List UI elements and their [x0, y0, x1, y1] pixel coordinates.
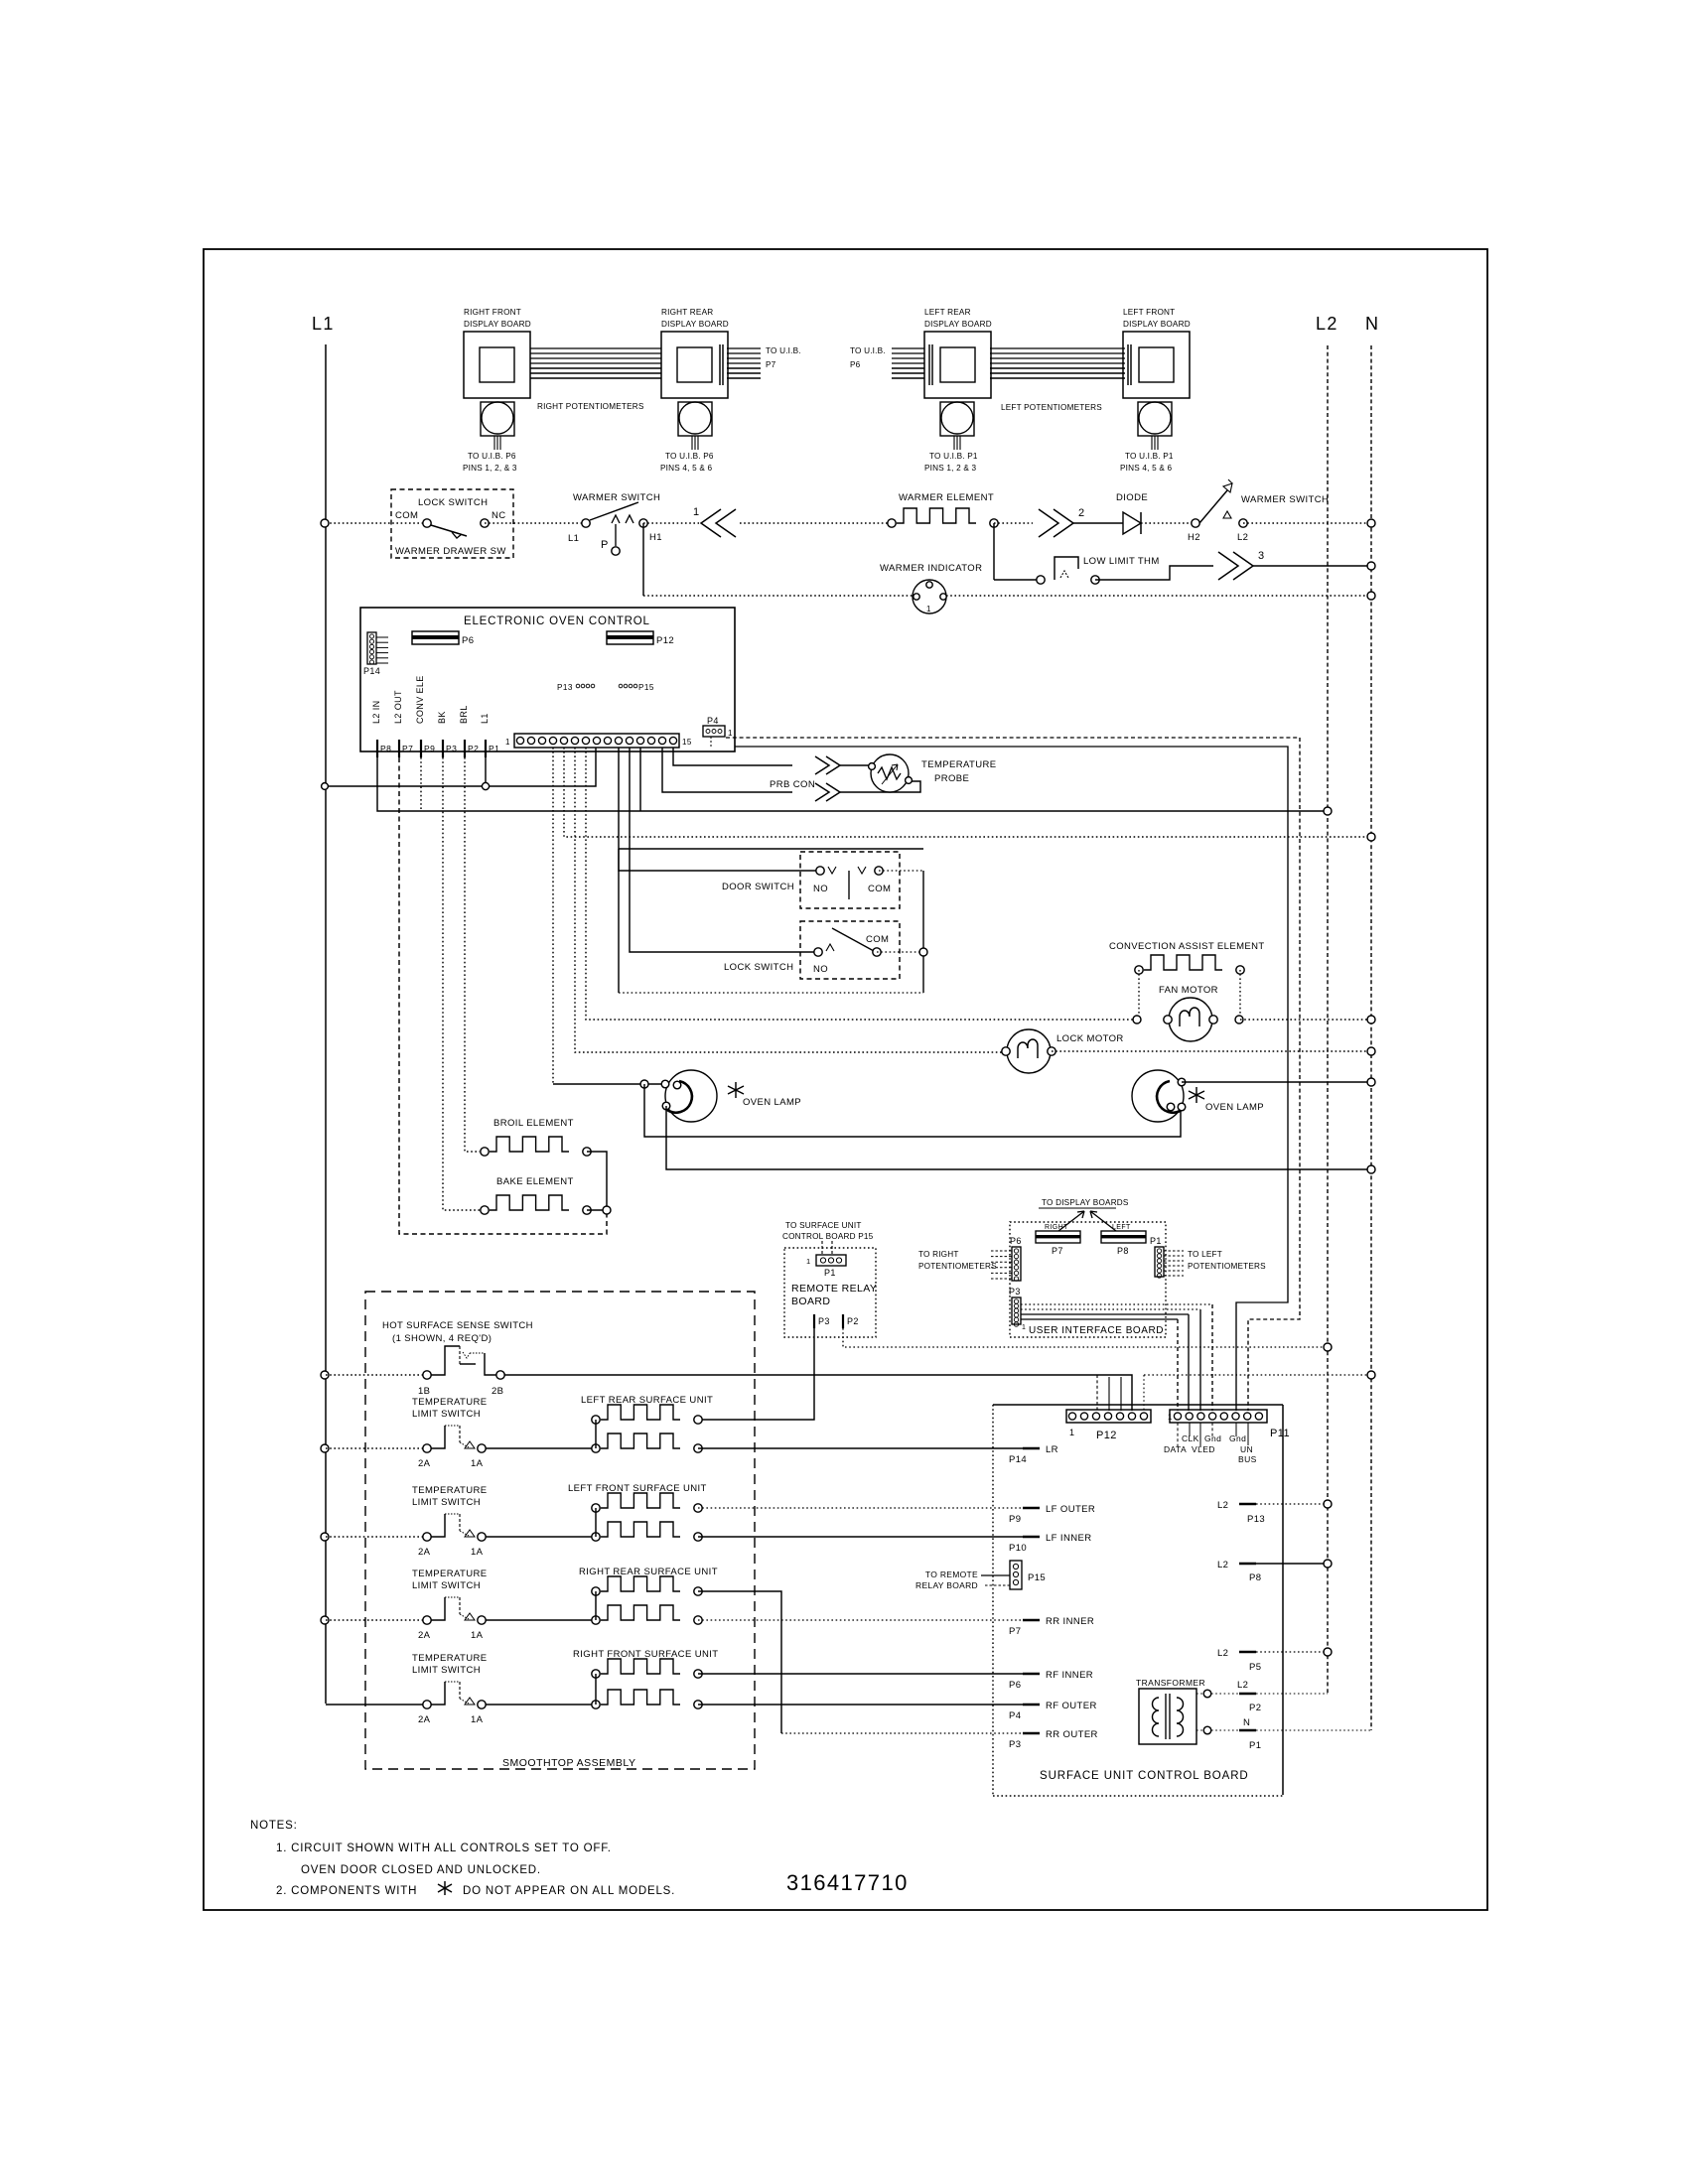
wire RF upper to SUCB P6	[698, 1673, 1023, 1675]
connector 1 chevrons	[643, 522, 699, 524]
svg-text:RIGHT: RIGHT	[1045, 1224, 1068, 1231]
node H1	[639, 519, 647, 527]
wire left lamp junction to right lamp	[644, 1084, 1181, 1137]
svg-text:LIMIT SWITCH: LIMIT SWITCH	[412, 1409, 481, 1420]
wire sense switch to SUCB P12 pin6	[504, 1375, 1132, 1411]
transformer terminals	[1196, 1693, 1207, 1695]
P11 pin function labels	[1177, 1423, 1179, 1447]
wire LF upper to SUCB P9	[698, 1507, 1023, 1509]
svg-text:OVEN DOOR CLOSED AND UNLOCKED.: OVEN DOOR CLOSED AND UNLOCKED.	[301, 1864, 541, 1876]
wire warmer switch to N bus	[1243, 522, 1371, 524]
svg-text:3: 3	[1258, 550, 1265, 562]
svg-text:LOW LIMIT THM: LOW LIMIT THM	[1083, 556, 1160, 567]
pin P9 (CONV ELE) of oven control	[420, 740, 422, 757]
svg-text:TO U.I.B.: TO U.I.B.	[850, 346, 886, 355]
wire pin15 PRB CON upper	[673, 748, 792, 765]
wire pin5 to N bus	[564, 748, 1371, 837]
svg-text:RR INNER: RR INNER	[1046, 1616, 1094, 1627]
svg-text:BAKE ELEMENT: BAKE ELEMENT	[496, 1176, 574, 1187]
svg-text:P4: P4	[1009, 1710, 1021, 1721]
svg-text:P2: P2	[1249, 1703, 1261, 1713]
svg-text:L1: L1	[568, 533, 579, 544]
connector P1 of remote relay board	[816, 1255, 846, 1266]
pin P6 (RF INNER) of SUCB	[1023, 1673, 1040, 1675]
svg-text:WARMER INDICATOR: WARMER INDICATOR	[880, 563, 982, 574]
svg-text:TEMPERATURE: TEMPERATURE	[412, 1653, 487, 1664]
svg-text:P6: P6	[1010, 1236, 1022, 1246]
connector 3 chevrons	[1218, 552, 1253, 580]
door-lock switch outer box	[619, 848, 923, 850]
svg-text:P13: P13	[1247, 1514, 1265, 1525]
svg-text:1A: 1A	[471, 1714, 484, 1725]
svg-text:P14: P14	[1009, 1454, 1027, 1465]
svg-text:ELECTRONIC OVEN CONTROL: ELECTRONIC OVEN CONTROL	[464, 615, 650, 627]
svg-text:DISPLAY BOARD: DISPLAY BOARD	[924, 320, 992, 329]
svg-text:RIGHT REAR SURFACE UNIT: RIGHT REAR SURFACE UNIT	[579, 1567, 718, 1577]
wire RR upper to SUCB P3	[698, 1591, 781, 1733]
wire pin11 to lock switch NO	[630, 748, 818, 952]
wire pin14 PRB CON lower	[662, 748, 792, 792]
svg-text:LEFT: LEFT	[1112, 1224, 1131, 1231]
svg-text:1: 1	[505, 738, 510, 747]
svg-text:TO RIGHT: TO RIGHT	[918, 1250, 959, 1259]
pin P2 of remote relay board	[842, 1314, 844, 1328]
svg-text:L2 OUT: L2 OUT	[393, 690, 403, 724]
svg-text:P7: P7	[766, 360, 776, 369]
svg-text:H2: H2	[1188, 532, 1200, 543]
svg-text:WARMER SWITCH: WARMER SWITCH	[1241, 494, 1329, 505]
svg-text:WARMER ELEMENT: WARMER ELEMENT	[899, 492, 994, 503]
svg-text:1: 1	[1069, 1428, 1074, 1437]
wire NC to warmer switch	[485, 522, 586, 524]
wire pin7 to fan motor	[586, 748, 1137, 1020]
svg-text:RF INNER: RF INNER	[1046, 1670, 1093, 1681]
asterisk right lamp	[1189, 1087, 1204, 1103]
oven lamp (right)	[1132, 1070, 1184, 1122]
pin P8 (L2 IN) of oven control	[376, 740, 378, 757]
svg-text:1B: 1B	[418, 1386, 430, 1397]
wire P9 CONV ELE drop	[420, 757, 422, 811]
svg-text:SMOOTHTOP ASSEMBLY: SMOOTHTOP ASSEMBLY	[502, 1757, 635, 1769]
wire UIB P3 to SUCB P11 pin2	[1021, 1313, 1189, 1315]
wire L1 row to EOC pin P1/pin8	[326, 748, 596, 786]
wire door COM to common rail	[879, 870, 923, 872]
svg-text:TO LEFT: TO LEFT	[1188, 1250, 1222, 1259]
svg-text:P2: P2	[847, 1316, 859, 1326]
svg-text:LEFT POTENTIOMETERS: LEFT POTENTIOMETERS	[1001, 403, 1102, 412]
svg-text:H1: H1	[649, 532, 662, 543]
svg-text:P3: P3	[446, 744, 457, 753]
svg-text:L2: L2	[1217, 1560, 1228, 1570]
svg-text:TO U.I.B. P6: TO U.I.B. P6	[665, 452, 714, 461]
svg-text:TRANSFORMER: TRANSFORMER	[1136, 1678, 1205, 1688]
wire bake to return junction	[587, 1209, 607, 1211]
svg-text:SURFACE UNIT CONTROL BOARD: SURFACE UNIT CONTROL BOARD	[1040, 1770, 1249, 1782]
svg-text:POTENTIOMETERS: POTENTIOMETERS	[1188, 1262, 1266, 1271]
oven lamp (left)	[665, 1070, 717, 1122]
svg-text:P8: P8	[1117, 1246, 1129, 1256]
svg-text:P3: P3	[1009, 1287, 1021, 1297]
svg-text:P4: P4	[707, 716, 719, 726]
node L2 terminal of warmer switch	[1239, 519, 1247, 527]
wire UIB P3 to SUCB P11 pin3	[1021, 1308, 1200, 1310]
svg-text:TO U.I.B.: TO U.I.B.	[766, 346, 801, 355]
svg-text:BUS: BUS	[1238, 1454, 1257, 1464]
connector 2 chevrons	[1039, 509, 1073, 537]
svg-text:BOARD: BOARD	[791, 1296, 830, 1307]
wire P2 BRL to broil element	[465, 757, 480, 1152]
wire pin4 to oven lamp	[552, 748, 554, 1084]
svg-text:HOT SURFACE SENSE SWITCH: HOT SURFACE SENSE SWITCH	[382, 1320, 533, 1331]
wire L2 vertical bus	[1327, 345, 1329, 1694]
svg-text:NC: NC	[492, 510, 506, 521]
pin P3 of remote relay board	[813, 1314, 815, 1328]
pin P9 (LF OUTER) of SUCB	[1023, 1507, 1040, 1509]
svg-text:P6: P6	[850, 360, 861, 369]
svg-text:TO U.I.B. P6: TO U.I.B. P6	[468, 452, 516, 461]
svg-text:P12: P12	[656, 635, 674, 646]
svg-text:P15: P15	[1028, 1572, 1046, 1583]
svg-text:LIMIT SWITCH: LIMIT SWITCH	[412, 1580, 481, 1591]
svg-text:1: 1	[806, 1257, 811, 1266]
svg-text:NO: NO	[813, 964, 828, 975]
wire ribbon right boards	[530, 347, 661, 349]
svg-text:VLED: VLED	[1192, 1444, 1215, 1454]
pin P1 (L1) of oven control	[485, 740, 487, 757]
svg-text:P11: P11	[1270, 1428, 1290, 1439]
svg-text:P: P	[601, 539, 609, 551]
svg-text:(1 SHOWN, 4 REQ'D): (1 SHOWN, 4 REQ'D)	[392, 1333, 492, 1344]
potentiometer right-front, TO U.I.B. P6 PINS 1,2,&3	[481, 402, 514, 436]
potentiometer left-rear, TO U.I.B. P1 PINS 1,2&3	[940, 402, 974, 436]
svg-text:L2: L2	[1237, 532, 1248, 543]
pin P3 (RR OUTER) of SUCB	[1023, 1732, 1040, 1734]
wire lock motor to N bus	[1052, 1050, 1371, 1052]
svg-text:316417710: 316417710	[786, 1870, 909, 1895]
svg-text:1A: 1A	[471, 1630, 484, 1641]
wire H1 to warmer indicator	[642, 523, 644, 596]
svg-text:USER INTERFACE BOARD: USER INTERFACE BOARD	[1029, 1325, 1164, 1336]
svg-text:N: N	[1243, 1717, 1250, 1728]
svg-text:1: 1	[693, 506, 700, 518]
temperature probe	[871, 754, 909, 792]
wire P8 L2-IN to L2 bus	[377, 757, 1328, 811]
svg-text:P6: P6	[462, 635, 474, 646]
svg-text:TO REMOTE: TO REMOTE	[925, 1570, 978, 1579]
connector PRB CON chevrons lower	[815, 783, 840, 801]
wire P7 L2-OUT return	[399, 757, 607, 1234]
pin P2 (BRL) of oven control	[464, 740, 466, 757]
svg-text:1: 1	[926, 605, 931, 614]
connector P15	[619, 684, 623, 688]
svg-text:15: 15	[682, 738, 692, 747]
pin P4 (RF OUTER) of SUCB	[1023, 1704, 1040, 1706]
svg-text:P7: P7	[1052, 1246, 1063, 1256]
svg-text:CLK: CLK	[1182, 1433, 1199, 1443]
svg-text:1: 1	[728, 729, 733, 738]
potentiometer right-rear, TO U.I.B. P6 PINS 4,5&6	[678, 402, 712, 436]
wire broil to return	[587, 1152, 607, 1210]
lock switch box WARMER DRAWER SW	[391, 489, 513, 558]
user interface board	[1010, 1222, 1166, 1337]
svg-text:L2: L2	[1217, 1500, 1228, 1511]
svg-text:2A: 2A	[418, 1547, 431, 1558]
svg-text:UN: UN	[1240, 1444, 1253, 1454]
svg-text:L2: L2	[1237, 1680, 1248, 1691]
svg-text:DIODE: DIODE	[1116, 492, 1148, 503]
wire sense row to N bus	[1144, 1374, 1371, 1376]
connector pin row 1-15	[514, 734, 679, 748]
wire LR lower to SUCB P14	[698, 1447, 1023, 1449]
svg-text:2. COMPONENTS WITH: 2. COMPONENTS WITH	[276, 1885, 417, 1897]
pin P10 (LF INNER) of SUCB	[1023, 1536, 1040, 1538]
svg-text:2A: 2A	[418, 1458, 431, 1469]
svg-text:P8: P8	[1249, 1572, 1261, 1583]
svg-text:P8: P8	[380, 744, 391, 753]
svg-text:BROIL ELEMENT: BROIL ELEMENT	[493, 1118, 574, 1129]
svg-text:TO SURFACE UNIT: TO SURFACE UNIT	[785, 1221, 862, 1230]
svg-text:P3: P3	[818, 1316, 830, 1326]
svg-text:P1: P1	[824, 1268, 836, 1278]
svg-text:LR: LR	[1046, 1444, 1058, 1455]
svg-text:P7: P7	[402, 744, 413, 753]
wire pin6 to lock motor	[575, 748, 1006, 1052]
wire fan motor row junctions	[1133, 1016, 1141, 1024]
svg-text:CONVECTION ASSIST ELEMENT: CONVECTION ASSIST ELEMENT	[1109, 941, 1265, 952]
wire warmer element to connector 2	[994, 522, 1033, 524]
svg-text:P5: P5	[1249, 1662, 1261, 1673]
svg-text:1A: 1A	[471, 1458, 484, 1469]
svg-text:2B: 2B	[492, 1386, 503, 1397]
wire connector1 to warmer element	[740, 522, 892, 524]
svg-text:PINS 1, 2 & 3: PINS 1, 2 & 3	[924, 464, 976, 473]
wire connector 3 to N bus	[1253, 565, 1371, 567]
svg-text:LEFT FRONT: LEFT FRONT	[1123, 308, 1175, 317]
smoothtop assembly box	[365, 1292, 755, 1769]
svg-text:P1: P1	[1150, 1236, 1162, 1246]
svg-text:FAN MOTOR: FAN MOTOR	[1159, 985, 1218, 996]
surface unit control board box	[993, 1404, 1283, 1406]
svg-text:CONTROL BOARD P15: CONTROL BOARD P15	[782, 1232, 874, 1241]
op-board U: ELECTRONIC OVEN CONTROL box	[360, 608, 735, 751]
svg-text:RIGHT FRONT: RIGHT FRONT	[464, 308, 521, 317]
connector P11 of SUCB	[1170, 1410, 1267, 1423]
svg-text:LOCK MOTOR: LOCK MOTOR	[1056, 1033, 1124, 1044]
connector P12	[607, 631, 653, 644]
svg-text:P9: P9	[424, 744, 435, 753]
svg-text:P14: P14	[363, 666, 380, 676]
wire warmer element to low limit thermostat	[993, 523, 995, 580]
svg-text:P12: P12	[1096, 1430, 1117, 1441]
node P terminal of warmer switch	[615, 524, 617, 546]
asterisk note symbol	[438, 1881, 452, 1895]
svg-text:DO NOT APPEAR ON ALL MODELS.: DO NOT APPEAR ON ALL MODELS.	[463, 1885, 675, 1897]
svg-text:CONV ELE: CONV ELE	[415, 675, 425, 724]
wire UIB P3 to SUCB P11 pin4	[1021, 1303, 1212, 1305]
arrows to display boards	[1058, 1211, 1084, 1231]
svg-text:WARMER DRAWER SW: WARMER DRAWER SW	[395, 546, 506, 557]
svg-text:DOOR SWITCH: DOOR SWITCH	[722, 882, 794, 892]
svg-text:L2: L2	[1217, 1648, 1228, 1659]
wire common rail of door/lock	[922, 871, 924, 993]
svg-text:BK: BK	[437, 711, 447, 724]
connector PRB CON chevrons upper	[815, 756, 840, 774]
svg-text:TO U.I.B. P1: TO U.I.B. P1	[929, 452, 978, 461]
svg-text:OVEN LAMP: OVEN LAMP	[743, 1097, 801, 1108]
pin P14 (LR) of SUCB	[1023, 1447, 1040, 1449]
wire pin12 drop	[639, 748, 641, 811]
svg-text:L2: L2	[1316, 314, 1338, 334]
svg-text:COM: COM	[866, 934, 889, 945]
wire EOC P4 to SUCB P11 pin7	[726, 738, 1300, 1411]
wires into SUCB P12 pins	[1096, 1375, 1098, 1411]
svg-text:P7: P7	[1009, 1626, 1021, 1637]
node H2	[1192, 519, 1199, 527]
svg-text:RELAY BOARD: RELAY BOARD	[915, 1580, 978, 1590]
svg-text:NOTES:: NOTES:	[250, 1820, 298, 1832]
svg-text:DISPLAY BOARD: DISPLAY BOARD	[1123, 320, 1191, 329]
wire pin10 to door switch NO	[619, 748, 820, 871]
svg-text:TEMPERATURE: TEMPERATURE	[412, 1397, 487, 1408]
svg-text:L2 IN: L2 IN	[371, 700, 381, 724]
svg-text:Gnd: Gnd	[1204, 1433, 1221, 1443]
wire P3 BK to bake element	[443, 757, 480, 1210]
wire RF lower to SUCB P4	[698, 1704, 1023, 1706]
lock switch	[800, 921, 900, 979]
svg-text:TO U.I.B. P1: TO U.I.B. P1	[1125, 452, 1174, 461]
svg-text:COM: COM	[395, 510, 418, 521]
potentiometer left-front, TO U.I.B. P1 PINS 4,5&6	[1138, 402, 1172, 436]
svg-text:LEFT REAR: LEFT REAR	[924, 308, 971, 317]
svg-text:1A: 1A	[471, 1547, 484, 1558]
svg-text:2A: 2A	[418, 1714, 431, 1725]
wire RR lower to SUCB P7	[698, 1619, 1023, 1621]
wire ribbon left boards	[990, 347, 1125, 349]
svg-text:BRL: BRL	[459, 705, 469, 724]
svg-text:N: N	[1365, 314, 1379, 334]
svg-text:LF OUTER: LF OUTER	[1046, 1504, 1095, 1515]
pin P1 wire	[485, 757, 487, 786]
connector P14	[367, 632, 376, 664]
wire L1 vertical bus	[325, 344, 327, 1704]
svg-text:P1: P1	[489, 744, 499, 753]
svg-text:NO: NO	[813, 884, 828, 894]
wire RRB P2 to L2 bus	[843, 1328, 1328, 1347]
wire lock COM to common rail	[877, 951, 923, 953]
svg-text:Gnd: Gnd	[1229, 1433, 1246, 1443]
wire L1 to lock switch COM	[326, 522, 427, 524]
wire right lamp top to N bus	[1182, 1081, 1371, 1083]
door switch	[800, 852, 900, 908]
svg-text:TEMPERATURE: TEMPERATURE	[412, 1485, 487, 1496]
svg-text:RIGHT REAR: RIGHT REAR	[661, 308, 713, 317]
svg-text:LOCK SWITCH: LOCK SWITCH	[418, 497, 488, 508]
svg-text:LF INNER: LF INNER	[1046, 1533, 1091, 1544]
svg-text:TEMPERATURE: TEMPERATURE	[412, 1569, 487, 1579]
connector P12 of SUCB	[1066, 1410, 1151, 1423]
wire EOC right edge to SUCB P11 pin6	[735, 747, 1288, 1411]
svg-text:PINS 4, 5 & 6: PINS 4, 5 & 6	[1120, 464, 1172, 473]
connector P15 of SUCB	[1010, 1561, 1022, 1589]
svg-text:P2: P2	[468, 744, 479, 753]
svg-text:1: 1	[1022, 1324, 1026, 1331]
svg-text:P9: P9	[1009, 1514, 1021, 1525]
svg-text:P13: P13	[557, 683, 573, 692]
pin P3 (BK) of oven control	[442, 740, 444, 757]
svg-text:P10: P10	[1009, 1543, 1027, 1554]
svg-text:L1: L1	[480, 713, 490, 724]
svg-text:TEMPERATURE: TEMPERATURE	[921, 759, 996, 770]
svg-text:DISPLAY BOARD: DISPLAY BOARD	[661, 320, 729, 329]
wire low limit to connector 3	[1095, 566, 1213, 580]
svg-text:PROBE: PROBE	[934, 773, 969, 784]
svg-text:2: 2	[1078, 507, 1085, 519]
svg-text:P3: P3	[1009, 1739, 1021, 1750]
svg-text:L1: L1	[312, 314, 335, 334]
wire LF lower to SUCB P10	[698, 1536, 1023, 1538]
hot surface sense switch	[321, 1371, 329, 1379]
wire ribbon to U.I.B. P7	[727, 347, 761, 349]
svg-text:TO DISPLAY BOARDS: TO DISPLAY BOARDS	[1042, 1198, 1129, 1207]
svg-text:RIGHT POTENTIOMETERS: RIGHT POTENTIOMETERS	[537, 402, 644, 411]
connector P6	[412, 631, 459, 644]
wire warmer indicator to N bus	[946, 595, 1371, 597]
wire UIB P3 to SUCB P11 pin1	[1021, 1318, 1178, 1320]
svg-text:LIMIT SWITCH: LIMIT SWITCH	[412, 1497, 481, 1508]
svg-text:WARMER SWITCH: WARMER SWITCH	[573, 492, 660, 503]
svg-text:POTENTIOMETERS: POTENTIOMETERS	[918, 1262, 997, 1271]
svg-text:1: 1	[1168, 1413, 1173, 1422]
page border frame	[204, 249, 1487, 1910]
svg-text:REMOTE RELAY: REMOTE RELAY	[791, 1283, 877, 1295]
svg-text:OVEN LAMP: OVEN LAMP	[1205, 1102, 1264, 1113]
asterisk left lamp	[728, 1082, 744, 1098]
svg-text:P6: P6	[1009, 1680, 1021, 1691]
svg-text:1. CIRCUIT SHOWN WITH ALL CO: 1. CIRCUIT SHOWN WITH ALL CONTROLS SET T…	[276, 1843, 612, 1854]
svg-text:2A: 2A	[418, 1630, 431, 1641]
wire left lamp bottom to N bus	[666, 1106, 1371, 1169]
svg-text:DATA: DATA	[1164, 1444, 1187, 1454]
svg-text:RR OUTER: RR OUTER	[1046, 1729, 1098, 1740]
pin P7 (RR INNER) of SUCB	[1023, 1619, 1040, 1621]
svg-text:PINS 4, 5 & 6: PINS 4, 5 & 6	[660, 464, 712, 473]
svg-text:COM: COM	[868, 884, 891, 894]
svg-text:PINS 1, 2, & 3: PINS 1, 2, & 3	[463, 464, 517, 473]
svg-text:LIMIT SWITCH: LIMIT SWITCH	[412, 1665, 481, 1676]
svg-text:RF OUTER: RF OUTER	[1046, 1701, 1097, 1711]
svg-text:P1: P1	[1249, 1740, 1261, 1751]
wire N vertical bus	[1370, 345, 1372, 1730]
svg-text:LOCK SWITCH: LOCK SWITCH	[724, 962, 793, 973]
svg-text:PRB CON: PRB CON	[770, 779, 815, 790]
svg-text:P15: P15	[638, 683, 654, 692]
wire RRB P3 to left rear surface unit	[699, 1328, 814, 1420]
svg-text:DISPLAY BOARD: DISPLAY BOARD	[464, 320, 531, 329]
pin P7 (L2 OUT) of oven control	[398, 740, 400, 757]
